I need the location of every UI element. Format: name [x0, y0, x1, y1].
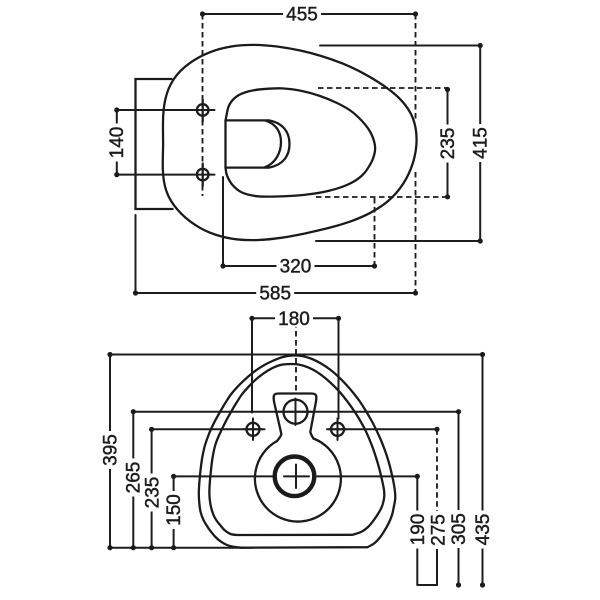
- svg-text:140: 140: [107, 127, 128, 159]
- svg-text:150: 150: [164, 494, 185, 526]
- svg-text:235: 235: [438, 128, 459, 160]
- svg-text:180: 180: [278, 309, 310, 330]
- svg-text:435: 435: [473, 514, 494, 546]
- svg-text:265: 265: [124, 462, 145, 494]
- svg-text:305: 305: [449, 513, 470, 545]
- svg-text:585: 585: [259, 284, 291, 305]
- svg-text:190: 190: [408, 514, 429, 546]
- svg-text:395: 395: [101, 434, 122, 466]
- svg-text:455: 455: [286, 5, 318, 26]
- svg-text:275: 275: [429, 514, 450, 546]
- svg-text:320: 320: [280, 257, 312, 278]
- svg-text:235: 235: [143, 477, 164, 509]
- svg-text:415: 415: [471, 127, 492, 159]
